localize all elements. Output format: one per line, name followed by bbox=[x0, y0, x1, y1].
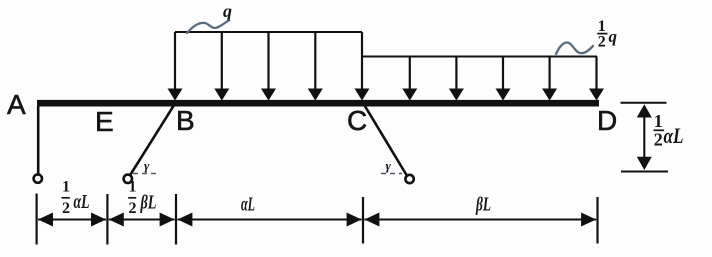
svg-text:αL: αL bbox=[664, 123, 684, 148]
svg-text:1: 1 bbox=[598, 18, 606, 35]
svg-text:2: 2 bbox=[62, 200, 70, 217]
beam A-D bbox=[37, 100, 599, 107]
svg-text:q: q bbox=[609, 27, 618, 46]
dimension segment 1/2 bL bbox=[109, 213, 175, 227]
vertical dimension bottom tick bbox=[621, 171, 668, 173]
support link at C (inclined) bbox=[363, 102, 414, 183]
svg-text:2: 2 bbox=[654, 130, 663, 150]
distributed load 1/2 q (C to D): top edge bbox=[362, 55, 597, 57]
svg-text:αL: αL bbox=[241, 194, 255, 216]
svg-text:D: D bbox=[597, 105, 617, 136]
svg-text:1: 1 bbox=[62, 178, 70, 195]
dimension segment bL bbox=[364, 213, 596, 227]
svg-text:2: 2 bbox=[129, 200, 137, 217]
load q arrow 4 bbox=[308, 32, 323, 101]
load q/2 arrow 2 bbox=[449, 57, 464, 101]
support link at B (inclined) bbox=[124, 102, 176, 183]
support link at A bbox=[34, 106, 42, 183]
label 1/2 aL (dim 1) bbox=[62, 178, 90, 217]
bottom dimension extension line 4 (below C) bbox=[362, 197, 364, 244]
load q/2 arrow 3 bbox=[496, 57, 511, 101]
leader squiggle for q bbox=[187, 21, 228, 33]
svg-text:γ: γ bbox=[386, 158, 392, 173]
svg-text:B: B bbox=[176, 105, 195, 136]
load q/2 arrow 5 (right edge at D) bbox=[589, 57, 604, 101]
bottom dimension extension line 5 (below D) bbox=[596, 197, 598, 244]
bottom dimension extension line 2 bbox=[106, 194, 108, 245]
load q/2 arrow 4 bbox=[542, 57, 557, 101]
angle gamma at C bbox=[381, 158, 402, 174]
distributed load q (B to C): top edge bbox=[175, 31, 362, 33]
load q arrow 5 (at C) bbox=[355, 32, 370, 101]
label 1/2 aL (right) bbox=[654, 111, 684, 150]
svg-text:γ: γ bbox=[144, 158, 150, 173]
dimension segment 1/2 aL bbox=[38, 213, 106, 227]
bottom dimension extension line at A bbox=[35, 194, 37, 245]
svg-text:C: C bbox=[347, 105, 367, 136]
load q/2 arrow 1 bbox=[402, 57, 417, 101]
bottom dimension extension line 3 (below B) bbox=[175, 194, 177, 245]
load q arrow 1 bbox=[168, 32, 183, 101]
load q arrow 3 bbox=[261, 32, 276, 101]
vertical dimension double arrow bbox=[637, 104, 652, 170]
svg-text:q: q bbox=[223, 1, 232, 21]
svg-text:1: 1 bbox=[654, 111, 663, 131]
svg-text:2: 2 bbox=[598, 34, 606, 51]
svg-text:βL: βL bbox=[140, 192, 157, 214]
dimension segment aL bbox=[177, 213, 361, 227]
svg-text:αL: αL bbox=[74, 191, 90, 213]
label 1/2 bL (dim 2) bbox=[128, 178, 156, 217]
leader squiggle for 1/2 q bbox=[556, 42, 593, 54]
svg-text:1: 1 bbox=[129, 178, 137, 195]
svg-text:βL: βL bbox=[475, 194, 491, 216]
vertical dimension 1/2 aL at right: top tick bbox=[621, 102, 667, 104]
svg-text:E: E bbox=[95, 106, 114, 137]
angle gamma at B bbox=[133, 158, 159, 174]
svg-text:A: A bbox=[7, 89, 26, 120]
label 1/2 q bbox=[597, 18, 617, 51]
load q arrow 2 bbox=[214, 32, 229, 101]
